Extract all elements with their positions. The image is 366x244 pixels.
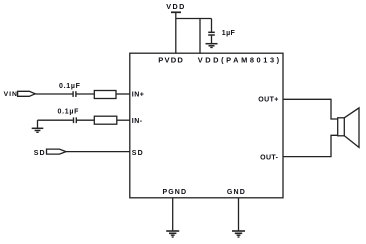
wire R1 to IN+ pin [116, 93, 130, 95]
svg-text:OUT-: OUT- [260, 155, 279, 162]
connector SD tag [47, 149, 67, 154]
wire VDD pin drop [199, 19, 201, 54]
power terminal VDD bar [171, 11, 181, 13]
svg-text:OUT+: OUT+ [258, 97, 278, 104]
svg-text:VDD: VDD [166, 2, 186, 11]
connector VIN tag [18, 91, 36, 96]
GND pin stem [238, 198, 240, 231]
svg-text:PGND: PGND [162, 189, 187, 196]
wire VDD branch horizontal [176, 18, 212, 20]
svg-text:IN+: IN+ [132, 91, 145, 98]
wire C3 to R2 [77, 119, 94, 121]
svg-text:0.1µF: 0.1µF [58, 109, 80, 116]
capacitor C2 1uF leads [211, 19, 213, 32]
svg-text:PVDD: PVDD [158, 56, 184, 65]
IC U1 PAM8013 box [130, 53, 283, 198]
svg-text:VDD(PAM8013): VDD(PAM8013) [198, 56, 282, 65]
resistor R1 box [94, 91, 116, 99]
speaker LS1 body [338, 118, 345, 136]
speaker LS1 cone [344, 108, 359, 147]
ground at PGND [166, 230, 179, 232]
svg-text:SD: SD [34, 150, 46, 157]
resistor R2 box [94, 116, 117, 124]
svg-text:SD: SD [132, 150, 144, 157]
wire R2 to IN- pin [117, 119, 130, 121]
ground at GND [232, 230, 245, 232]
wire OUT- to speaker [283, 135, 338, 156]
wire OUT+ to speaker [283, 99, 338, 119]
ground at IN- input [37, 120, 39, 128]
PGND pin stem [172, 198, 174, 231]
capacitor C1 0.1uF plates [72, 91, 74, 97]
svg-text:GND: GND [227, 189, 246, 196]
svg-text:IN-: IN- [132, 118, 143, 125]
svg-text:1µF: 1µF [222, 30, 236, 37]
svg-text:0.1µF: 0.1µF [59, 83, 81, 90]
wire VIN to C1 [35, 93, 72, 95]
wire ground to C3 [38, 119, 73, 121]
svg-text:VIN: VIN [4, 91, 18, 98]
capacitor C2 1uF plates [208, 31, 215, 33]
wire C1 to R1 [77, 93, 95, 95]
wire VDD vertical to PVDD pin [175, 13, 177, 53]
capacitor C3 0.1uF plates [73, 117, 75, 123]
wire SD tag to SD pin [66, 151, 130, 153]
ground below C2 [206, 43, 218, 45]
